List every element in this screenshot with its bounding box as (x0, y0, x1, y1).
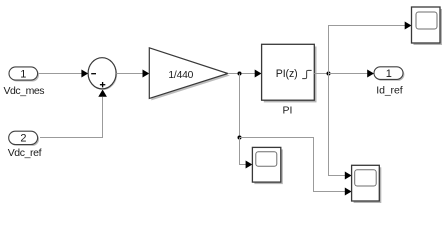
wire junction to mid scope (240, 138, 253, 169)
svg-text:1/440: 1/440 (168, 70, 193, 81)
wire junction down to bottom-right scope input 1 (329, 74, 352, 180)
wire junction up to top scope (329, 22, 412, 74)
wire port1 to sum (38, 70, 88, 78)
svg-text:Vdc_ref: Vdc_ref (8, 147, 42, 159)
gain 1/440 (149, 48, 230, 101)
wire gain to PI (228, 70, 262, 78)
sum block (88, 58, 117, 90)
wire port2 to sum bottom (40, 90, 107, 138)
output port 1 Id_ref (374, 67, 404, 81)
wire sum to gain (116, 70, 149, 78)
svg-text:Id_ref: Id_ref (376, 85, 402, 97)
wire PI to junction (314, 73, 328, 75)
input port 1 Vdc_mes (9, 67, 39, 82)
svg-text:1: 1 (20, 68, 26, 80)
svg-text:Vdc_mes: Vdc_mes (3, 85, 44, 97)
junction after gain (238, 72, 242, 76)
PI(z) controller block U1 (262, 44, 317, 102)
label Vdc_mes (3, 85, 44, 97)
wire junction to output port (329, 70, 375, 78)
svg-text:2: 2 (20, 132, 26, 144)
junction after PI (327, 72, 331, 76)
svg-text:PI: PI (282, 104, 292, 116)
svg-text:PI(z): PI(z) (276, 68, 298, 80)
wire branch down from gain junction (239, 74, 241, 138)
label Id_ref (376, 85, 402, 97)
label Vdc_ref (8, 147, 42, 159)
scope bottom-right (352, 165, 382, 203)
input port 2 Vdc_ref (9, 131, 39, 146)
scope top-right (412, 7, 443, 45)
scope mid-bottom (252, 147, 282, 184)
label PI (282, 104, 292, 116)
wire junction to bottom-right scope input 2 (240, 138, 352, 196)
junction lower (238, 136, 242, 140)
svg-text:1: 1 (386, 68, 392, 80)
